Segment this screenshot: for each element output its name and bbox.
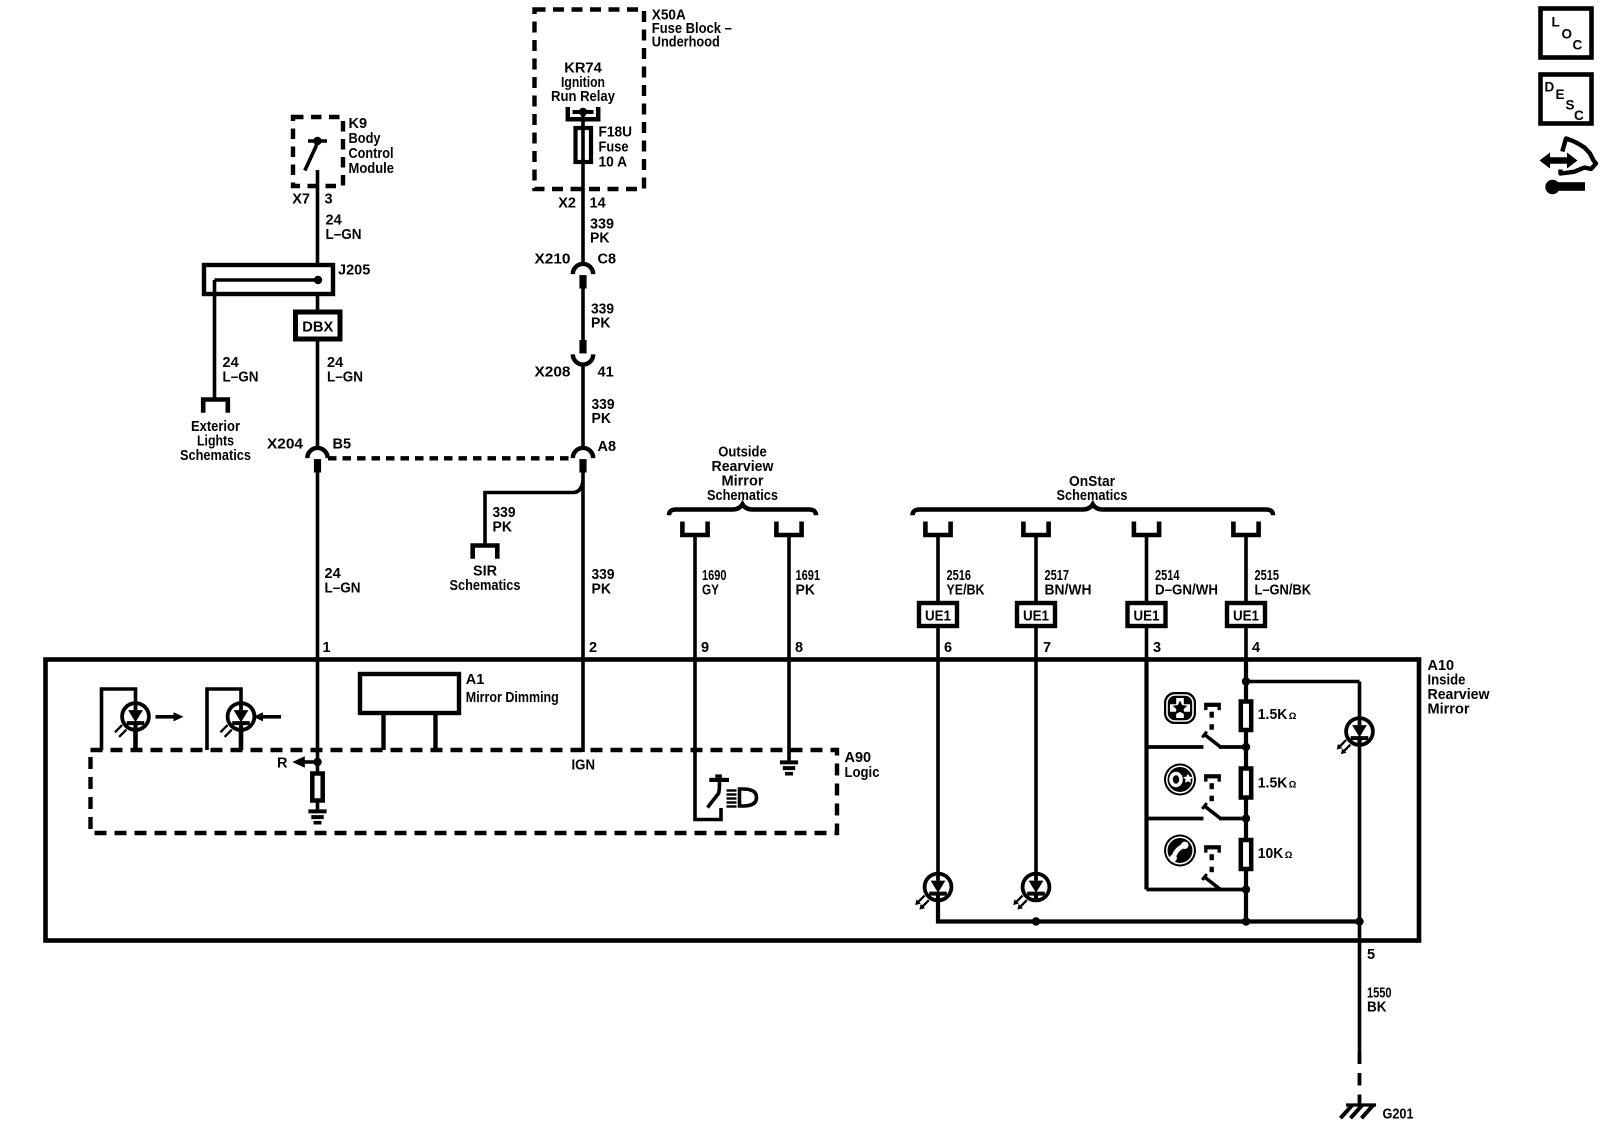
off-page bracket (to OnStar) wire 2516 <box>925 522 950 536</box>
wire: pin 8 to internal ground <box>787 659 791 762</box>
svg-text:B5: B5 <box>333 437 352 453</box>
A1 label <box>466 672 559 706</box>
svg-text:L–GN: L–GN <box>327 370 363 386</box>
brace (Outside Rearview Mirror) <box>669 504 816 515</box>
svg-text:L–GN: L–GN <box>326 227 362 243</box>
svg-text:3: 3 <box>325 192 333 208</box>
svg-text:1.5K: 1.5K <box>1258 707 1288 723</box>
svg-text:O: O <box>1562 27 1573 42</box>
off-page bracket (to OnStar) wire 2515 <box>1233 522 1258 536</box>
value label 1.5Kohm <box>1258 707 1297 723</box>
wire: pin 2 (IGN) into A90 <box>581 659 585 752</box>
svg-text:L–GN: L–GN <box>325 581 361 597</box>
resistor 10Kohm <box>1241 840 1251 869</box>
svg-text:Module: Module <box>349 161 395 177</box>
svg-text:1.5K: 1.5K <box>1258 776 1288 792</box>
inline connector UE1 (2514) <box>1128 603 1166 626</box>
OnStar button switch <box>1202 774 1221 818</box>
brace (OnStar) <box>913 504 1274 515</box>
svg-text:A90: A90 <box>845 750 872 766</box>
svg-text:L–GN: L–GN <box>223 370 259 386</box>
A10 Inside Rearview Mirror (component box) <box>46 660 1420 941</box>
connector X204 pin B5 <box>267 437 351 473</box>
svg-text:BN/WH: BN/WH <box>1045 583 1092 599</box>
Outside Rearview Mirror Schematics label <box>707 445 778 505</box>
phone button switch <box>1202 845 1221 889</box>
svg-text:X210: X210 <box>535 252 571 268</box>
OnStar Schematics label <box>1057 474 1128 504</box>
wire label 2516 YE/BK <box>947 568 985 599</box>
off-page: SIR Schematics <box>450 546 521 595</box>
photo sensor 1 (photodiode) <box>115 703 149 750</box>
svg-text:UE1: UE1 <box>1134 609 1160 625</box>
inline connector UE1 (2515) <box>1227 603 1265 626</box>
svg-text:X204: X204 <box>267 437 303 453</box>
svg-text:GY: GY <box>702 583 719 599</box>
svg-text:PK: PK <box>592 411 612 427</box>
wire label 339 PK (to pin 2) <box>592 567 615 598</box>
wire label 1691 PK <box>796 568 821 599</box>
dashed tie line X204-B5 to A8 <box>328 456 572 460</box>
svg-text:Underhood: Underhood <box>652 35 720 51</box>
svg-text:UE1: UE1 <box>1233 609 1259 625</box>
wire: pin 4 bus (right, resistor chain) <box>1244 659 1248 922</box>
wire: X208 to A8 <box>581 364 585 449</box>
wire label 2515 L–GN/BK <box>1255 568 1312 599</box>
junction to indicator LED <box>1242 677 1360 716</box>
off-page: Exterior Lights Schematics <box>180 400 251 465</box>
svg-text:L–GN/BK: L–GN/BK <box>1255 583 1312 599</box>
value label 10Kohm <box>1258 846 1293 862</box>
A1 Mirror Dimming element <box>360 674 459 750</box>
svg-text:Ω: Ω <box>1289 711 1297 722</box>
svg-text:5: 5 <box>1367 947 1375 963</box>
hand/pointer legend icon <box>1540 139 1597 195</box>
svg-text:C: C <box>1574 108 1584 123</box>
wire: 2514 D–GN/WH to pin 3 <box>1145 534 1149 659</box>
wire label 1690 GY <box>702 568 727 599</box>
svg-text:IGN: IGN <box>572 758 596 774</box>
svg-text:D: D <box>1545 80 1555 95</box>
off-page bracket (to ORVM) wire 1691 <box>776 522 801 536</box>
wire: pin 6 to LED <box>936 659 940 874</box>
wire label 1550 BK <box>1367 986 1392 1016</box>
svg-text:2: 2 <box>589 640 597 656</box>
branch wire to SIR Schematics <box>485 481 583 545</box>
LED (pin 7 backlight) <box>1013 874 1049 910</box>
svg-text:9: 9 <box>701 640 709 656</box>
wire: 1691 PK to pin 8 <box>787 534 791 659</box>
wire: pin 5 out of A10 <box>1358 922 1362 1052</box>
connector label X2 / pin 14 <box>558 196 605 212</box>
svg-text:E: E <box>1556 87 1565 102</box>
svg-text:Run Relay: Run Relay <box>551 89 615 105</box>
photo sensor 2 (rearward) loop wire <box>207 689 241 750</box>
wire label 24 L-GN (right branch) <box>327 355 363 386</box>
KR74 relay output terminal <box>568 107 598 119</box>
svg-text:10K: 10K <box>1258 846 1284 862</box>
wire label 339 PK <box>591 302 614 332</box>
headlamp switch blade <box>708 774 730 807</box>
svg-text:Mirror: Mirror <box>1428 702 1470 718</box>
wire: DBX down to X204 <box>316 339 320 449</box>
svg-text:Logic: Logic <box>845 765 880 781</box>
wire: resistor to internal ground <box>316 801 320 811</box>
svg-text:R: R <box>277 756 288 772</box>
wire label 339 PK (fuse output) <box>590 217 614 247</box>
wire: 2517 BN/WH to pin 7 <box>1034 534 1038 659</box>
svg-text:A1: A1 <box>466 672 485 688</box>
svg-text:Schematics: Schematics <box>450 578 521 594</box>
wire label 24 L-GN (left branch) <box>223 355 259 386</box>
internal ground (A90) <box>308 811 326 822</box>
wire: J205 to DBX <box>316 294 320 312</box>
resistor 1.5Kohm <box>1241 769 1251 798</box>
svg-text:Schematics: Schematics <box>180 448 251 464</box>
emergency button icon <box>1164 692 1196 724</box>
svg-text:Control: Control <box>349 146 394 162</box>
svg-text:PK: PK <box>590 231 610 247</box>
node R (junction + arrow) <box>277 756 322 772</box>
svg-text:14: 14 <box>590 196 606 212</box>
wire label 2514 D–GN/WH <box>1155 568 1218 599</box>
svg-text:Body: Body <box>349 131 381 147</box>
pin 4 <box>1252 640 1260 656</box>
svg-text:X2: X2 <box>558 196 576 212</box>
LOC legend box <box>1541 9 1592 58</box>
svg-text:Fuse: Fuse <box>599 140 629 156</box>
svg-text:BK: BK <box>1367 1000 1387 1016</box>
wire: pin 9 into A90 headlamp switch <box>695 659 721 820</box>
svg-text:DBX: DBX <box>302 320 333 336</box>
svg-text:41: 41 <box>598 365 614 381</box>
svg-text:3: 3 <box>1153 640 1161 656</box>
connector X208 pin 41 <box>535 340 614 381</box>
svg-text:A8: A8 <box>598 439 617 455</box>
svg-text:10 A: 10 A <box>599 155 628 171</box>
dashed wire to G201 <box>1358 1052 1362 1107</box>
wire: pin 1 into A90 logic <box>316 659 320 773</box>
wire label 339 PK <box>592 397 615 427</box>
pin 2 <box>589 640 597 656</box>
pin 5 <box>1367 947 1375 963</box>
OnStar button icon <box>1164 764 1196 796</box>
svg-text:X208: X208 <box>535 365 571 381</box>
svg-text:UE1: UE1 <box>1023 609 1049 625</box>
arrow (rearward light direction) <box>253 712 281 721</box>
pin 3 <box>1153 640 1161 656</box>
pin 6 <box>944 640 952 656</box>
wire: J205 left branch down to Exterior Lights <box>213 280 217 398</box>
off-page bracket (to OnStar) wire 2517 <box>1023 522 1048 536</box>
wire: X210 to X208 <box>581 289 585 342</box>
wire: X204 down to A10 pin 1 <box>316 473 320 660</box>
inline connector UE1 (2516) <box>919 603 957 626</box>
switch row wire/junction <box>1147 743 1251 751</box>
svg-text:K9: K9 <box>349 116 368 132</box>
K9 label <box>349 116 395 177</box>
emergency button switch <box>1202 703 1221 747</box>
A90 label <box>845 750 880 781</box>
LED (pin 6 backlight) <box>915 874 951 910</box>
svg-text:X7: X7 <box>292 192 310 208</box>
svg-text:PK: PK <box>796 583 816 599</box>
X50A Fuse Block - Underhood (dashed box) <box>535 10 645 190</box>
wire: pin 3 bus (left) <box>1144 659 1148 890</box>
net label IGN <box>572 758 596 774</box>
svg-text:G201: G201 <box>1383 1107 1414 1123</box>
value label 1.5Kohm <box>1258 776 1297 792</box>
arrow (forward light direction) <box>156 712 184 721</box>
wire: 1690 GY to pin 9 <box>693 534 697 659</box>
svg-text:4: 4 <box>1252 640 1260 656</box>
svg-text:6: 6 <box>944 640 952 656</box>
inline connector UE1 (2517) <box>1017 603 1055 626</box>
DESC legend box <box>1541 75 1592 124</box>
ground G201 (chassis) <box>1341 1105 1414 1123</box>
svg-text:PK: PK <box>493 520 513 536</box>
X50A label <box>652 8 732 51</box>
wire label 24 L-GN (BCM output) <box>326 213 362 243</box>
svg-text:F18U: F18U <box>599 125 633 141</box>
wire label 24 L-GN (to pin 1) <box>325 566 361 597</box>
pin 8 <box>795 640 803 656</box>
connector label X7 / pin 3 <box>292 192 332 208</box>
svg-text:Mirror Dimming: Mirror Dimming <box>466 690 559 706</box>
pin 1 <box>323 640 331 656</box>
connector X210 pin C8 <box>535 252 617 289</box>
svg-text:D–GN/WH: D–GN/WH <box>1155 583 1218 599</box>
wire label 2517 BN/WH <box>1045 568 1092 599</box>
off-page bracket (to ORVM) wire 1690 <box>682 522 707 536</box>
wire: LED down to bus <box>1358 745 1362 922</box>
svg-text:PK: PK <box>591 316 611 332</box>
wire: relay to fuse <box>581 112 585 127</box>
svg-text:PK: PK <box>592 582 612 598</box>
wire: fuse down, exits fuse block <box>581 164 585 265</box>
headlamp icon <box>727 789 757 807</box>
A90 Logic (dashed box) <box>91 750 838 833</box>
photo sensor 1 (forward) loop wire <box>102 689 136 750</box>
svg-text:J205: J205 <box>338 263 370 279</box>
wire: pin 7 to LED <box>1034 659 1038 874</box>
connector A8 <box>573 439 616 473</box>
wire: K9 pin X7-3 down to J205 <box>316 170 320 265</box>
pin 9 <box>701 640 709 656</box>
svg-text:Ω: Ω <box>1289 780 1297 791</box>
K9 internal switch <box>305 137 327 171</box>
svg-text:YE/BK: YE/BK <box>947 583 985 599</box>
photo sensor 2 (photodiode) <box>220 703 254 750</box>
A10 label <box>1428 658 1491 718</box>
DBX box <box>296 312 341 339</box>
resistor (mirror dimming drive) <box>312 774 322 801</box>
switch row wire/junction <box>1147 885 1251 893</box>
svg-text:C: C <box>1573 38 1583 53</box>
phone button icon <box>1164 835 1196 867</box>
svg-text:UE1: UE1 <box>925 609 951 625</box>
wire: A8 down to A10 pin 2 <box>581 473 585 660</box>
indicator LED (mirror) <box>1337 718 1373 754</box>
svg-text:Ω: Ω <box>1285 850 1293 861</box>
internal bus to pin 5 <box>938 900 1364 926</box>
wire: 2515 L–GN/BK to pin 4 <box>1244 534 1248 659</box>
svg-text:7: 7 <box>1043 640 1051 656</box>
svg-text:8: 8 <box>795 640 803 656</box>
splice pack J205 <box>204 263 370 295</box>
wire: 2516 YE/BK to pin 6 <box>936 534 940 659</box>
svg-text:L: L <box>1552 15 1560 30</box>
svg-text:C8: C8 <box>598 252 617 268</box>
svg-text:1: 1 <box>323 640 331 656</box>
pin 7 <box>1043 640 1051 656</box>
off-page bracket (to OnStar) wire 2514 <box>1134 522 1159 536</box>
KR74 Ignition Run Relay label <box>551 61 615 106</box>
switch row wire/junction <box>1147 814 1251 822</box>
wire label 339 PK (SIR branch) <box>493 505 516 536</box>
K9 Body Control Module (dashed box) <box>293 117 343 186</box>
fuse F18U 10A <box>576 125 633 171</box>
internal ground (pin 8) <box>780 762 798 773</box>
resistor 1.5Kohm <box>1241 702 1251 731</box>
